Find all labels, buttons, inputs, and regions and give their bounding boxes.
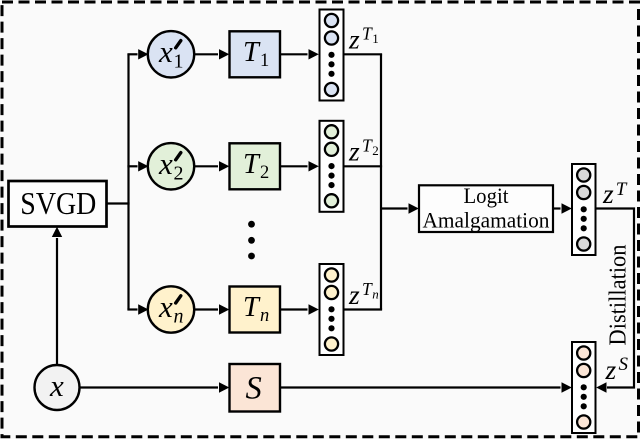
svg-text:z: z — [348, 24, 360, 55]
svg-text:Logit: Logit — [464, 183, 509, 208]
box teacher T1 — [230, 31, 281, 77]
logit vector z^T1 — [320, 10, 344, 101]
svg-text:T: T — [243, 149, 261, 180]
svg-text:SVGD: SVGD — [20, 185, 96, 221]
logit vector z^T2 — [320, 121, 344, 212]
svg-text:n: n — [260, 306, 269, 326]
box Logit Amalgamation — [419, 183, 553, 233]
svg-text:z: z — [602, 178, 614, 209]
box student S — [230, 364, 281, 412]
svg-text:z: z — [348, 136, 360, 167]
label z^S — [605, 354, 629, 385]
label z^T1 — [348, 24, 379, 55]
logit vector z^S — [572, 342, 596, 433]
svg-text:1: 1 — [174, 51, 184, 73]
svg-text:2: 2 — [174, 163, 184, 185]
wire S to z^S with arrowhead — [280, 382, 572, 392]
wire SVGD output to split trunk — [107, 202, 130, 204]
svg-text:z: z — [605, 354, 617, 385]
svg-text:T: T — [243, 292, 261, 323]
svg-text:Amalgamation: Amalgamation — [423, 208, 550, 233]
node x'n circle — [148, 286, 194, 332]
svg-text:T: T — [243, 37, 261, 68]
svg-text:2: 2 — [372, 143, 379, 158]
wire branch to x'1 with arrowhead — [127, 49, 148, 59]
wire T2 to z^T2 with arrowhead — [280, 161, 319, 171]
label z^T2 — [348, 136, 379, 167]
wire z^T2 to collector trunk — [344, 165, 383, 167]
svg-text:1: 1 — [260, 51, 269, 71]
wire T1 to z^T1 with arrowhead — [280, 49, 319, 59]
svg-text:1: 1 — [372, 31, 379, 46]
ellipsis dots between teacher rows — [248, 221, 255, 260]
node x'2 circle — [148, 143, 194, 189]
wire trunk to Logit Amalgamation with arrowhead — [381, 203, 419, 213]
svg-text:2: 2 — [260, 163, 269, 183]
wire z^Tn to collector trunk — [344, 308, 383, 310]
node x'1 circle — [148, 31, 194, 77]
svg-text:S: S — [246, 370, 262, 406]
svg-text:S: S — [619, 354, 629, 375]
label z^Tn — [348, 279, 379, 310]
wire x'1 to T1 with arrowhead — [195, 49, 230, 59]
svg-text:x: x — [158, 34, 173, 69]
wire z^T1 to collector trunk — [344, 53, 383, 55]
wire collector trunk vertical — [380, 54, 382, 309]
logit vector z^Tn — [320, 264, 344, 355]
svg-text:n: n — [174, 306, 184, 328]
wire split trunk vertical — [127, 54, 129, 309]
svg-text:x: x — [158, 289, 173, 324]
wire branch to x'n with arrowhead — [127, 304, 148, 314]
wire distillation path z^T to z^S with arrowhead — [596, 209, 635, 393]
box teacher T2 — [230, 143, 281, 189]
node x circle — [35, 365, 80, 410]
svg-text:Distillation: Distillation — [605, 245, 632, 346]
box teacher Tn — [230, 287, 281, 333]
wire Tn to z^Tn with arrowhead — [280, 304, 319, 314]
box SVGD U1 — [9, 181, 107, 227]
logit vector z^T — [572, 164, 596, 255]
wire x'n to Tn with arrowhead — [195, 304, 230, 314]
svg-text:x: x — [158, 146, 173, 181]
svg-text:z: z — [348, 279, 360, 310]
svg-text:n: n — [372, 286, 379, 301]
svg-text:x: x — [49, 368, 64, 403]
wire Logit Amalgamation to z^T with arrowhead — [553, 203, 572, 213]
svg-text:T: T — [616, 179, 628, 200]
wire x to S with arrowhead — [80, 382, 230, 392]
label z^T — [602, 178, 628, 209]
wire x'2 to T2 with arrowhead — [195, 161, 230, 171]
wire x up to SVGD with arrowhead — [52, 227, 62, 365]
wire branch to x'2 with arrowhead — [127, 161, 148, 171]
